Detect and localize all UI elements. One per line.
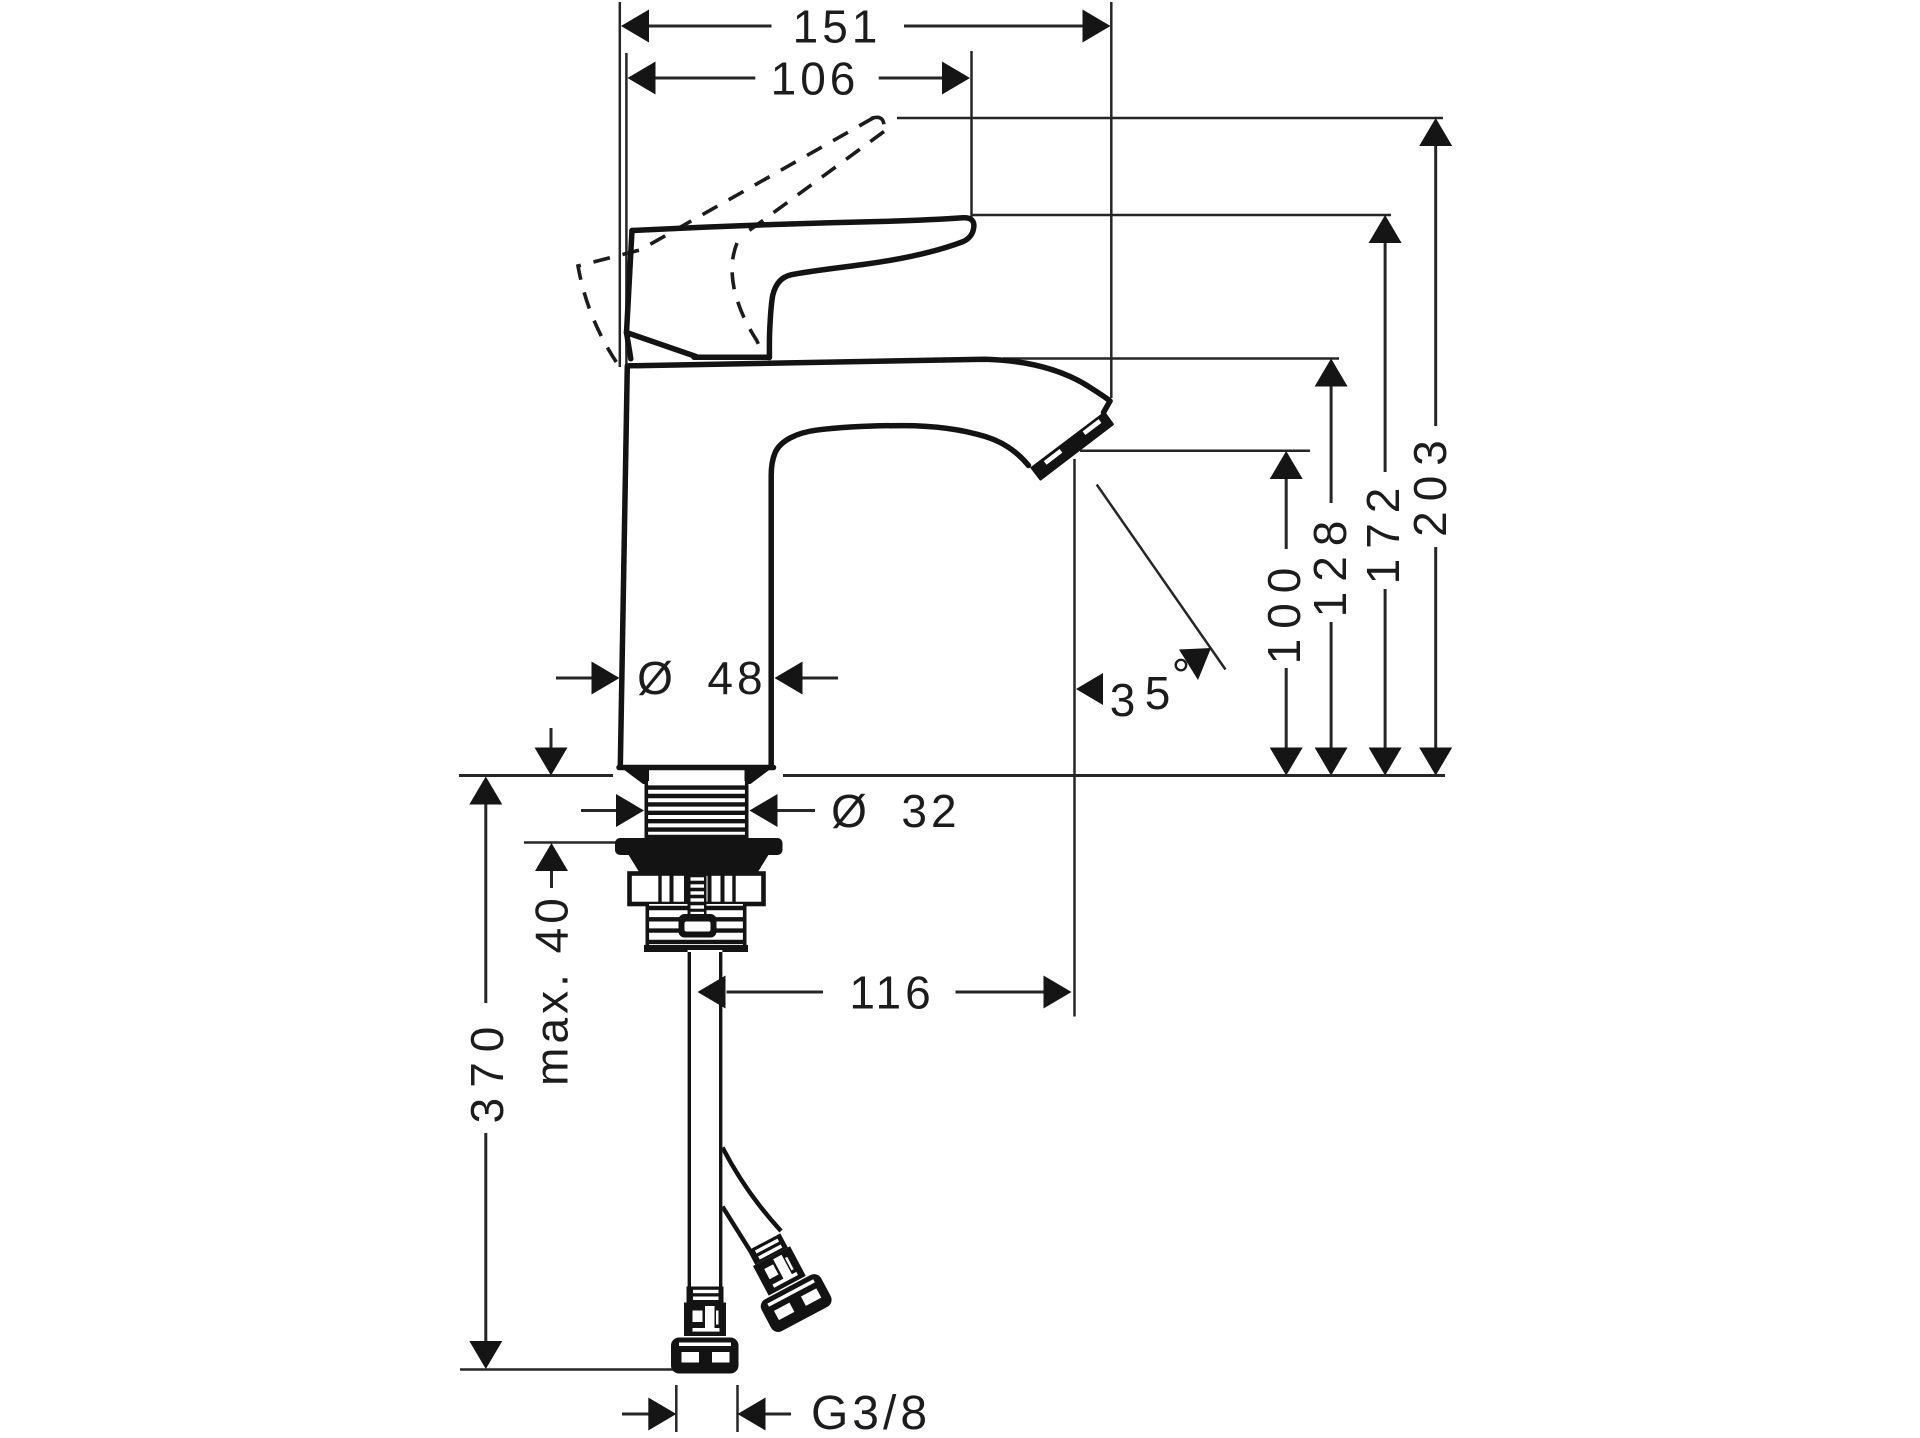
body left edge [620, 366, 627, 767]
svg-text:151: 151 [793, 1, 882, 53]
dimension 370 vertical [484, 803, 487, 1003]
handle bottom notch [627, 333, 631, 359]
handle underside horizontal [694, 354, 769, 360]
svg-text:203: 203 [1404, 430, 1456, 537]
aerator [1032, 413, 1113, 479]
dimension 100 vertical [1285, 477, 1288, 549]
extension line aerator centre vertical [1073, 459, 1076, 1017]
dimension line 151 [648, 25, 772, 28]
shank bottom edge [644, 945, 748, 952]
mounting nut [630, 874, 764, 905]
extension line 128 top [1003, 357, 1339, 360]
handle lever outline [632, 218, 974, 358]
dimension line 106 [655, 77, 756, 80]
threaded shank upper [645, 781, 749, 839]
svg-text:370: 370 [461, 1017, 513, 1124]
svg-text:32: 32 [901, 785, 960, 837]
extension line handle rear tip (106 right / 172) [970, 51, 973, 217]
arrow 151 left [621, 10, 649, 43]
aerator slot 1 [1084, 421, 1100, 433]
mounting plane line [459, 774, 613, 777]
arrow 106 left [628, 62, 656, 95]
diagonal hose fitting [734, 1226, 834, 1335]
svg-text:Ø: Ø [637, 652, 677, 704]
body bottom edge [619, 765, 774, 771]
extension line 100 top [1080, 450, 1310, 453]
bottom reference line (hose end) [460, 1368, 673, 1371]
spout underside and body right edge [771, 426, 1028, 767]
svg-text:max. 40: max. 40 [526, 894, 578, 1086]
extension line left (106) [625, 53, 628, 366]
extension line 203 top [897, 117, 1443, 120]
arrow 35 left [1076, 673, 1103, 705]
body bottom flare left [619, 766, 649, 784]
extension line spout tip (151 right) [1110, 2, 1113, 398]
dashed raised handle neck [732, 243, 764, 356]
handle left edge [627, 231, 633, 333]
diagonal hose [723, 1148, 782, 1251]
spout tip edge [1104, 401, 1111, 413]
threaded shank lower [646, 904, 747, 949]
central rod with threads [688, 874, 707, 919]
svg-text:Ø: Ø [831, 785, 871, 837]
dimension 128 vertical [1330, 385, 1333, 504]
dashed raised handle top edge [578, 118, 874, 370]
dimension 116 [727, 991, 824, 994]
svg-text:5: 5 [1145, 667, 1175, 719]
dimension diameter 32 [581, 809, 617, 812]
max40 lower reference line [524, 841, 616, 844]
dashed raised handle tip arc [871, 117, 884, 130]
svg-text:3: 3 [1110, 674, 1140, 726]
svg-text:G3/8: G3/8 [811, 1387, 931, 1438]
leader line 35 degrees [1097, 485, 1226, 670]
vertical hose fitting [671, 1287, 739, 1374]
svg-text:116: 116 [849, 967, 934, 1019]
G3/8 extension lines [675, 1385, 678, 1432]
body bottom flare right [745, 766, 775, 784]
handle bottom diagonal [627, 333, 697, 357]
vertical hose [688, 950, 723, 1290]
dashed raised handle bottom edge [741, 132, 884, 237]
dimension 172 vertical [1384, 241, 1387, 472]
svg-text:100: 100 [1258, 558, 1310, 665]
svg-text:48: 48 [707, 652, 766, 704]
arrow 106 right [942, 62, 970, 95]
washer [615, 838, 783, 855]
svg-text:106: 106 [771, 53, 860, 105]
arrow 35 on leader [1179, 648, 1211, 680]
dimension line diameter 48 [556, 677, 593, 680]
G3/8 arrows [622, 1413, 649, 1416]
dimension 203 vertical [1434, 144, 1437, 426]
max40 upper arrow (down to mounting plane) [550, 728, 553, 749]
rod clamp [679, 914, 717, 938]
svg-text:172: 172 [1357, 478, 1409, 585]
extension line left (151) [619, 2, 622, 367]
svg-text:128: 128 [1304, 511, 1356, 618]
aerator slot 2 [1045, 451, 1061, 463]
arrow 151 right [1083, 10, 1111, 43]
max40 lower arrow (up to washer top) [550, 870, 553, 888]
cone under washer [628, 854, 769, 874]
body top and spout top [629, 359, 1110, 401]
svg-text:°: ° [1172, 649, 1194, 701]
extension line 172 top [972, 214, 1392, 217]
